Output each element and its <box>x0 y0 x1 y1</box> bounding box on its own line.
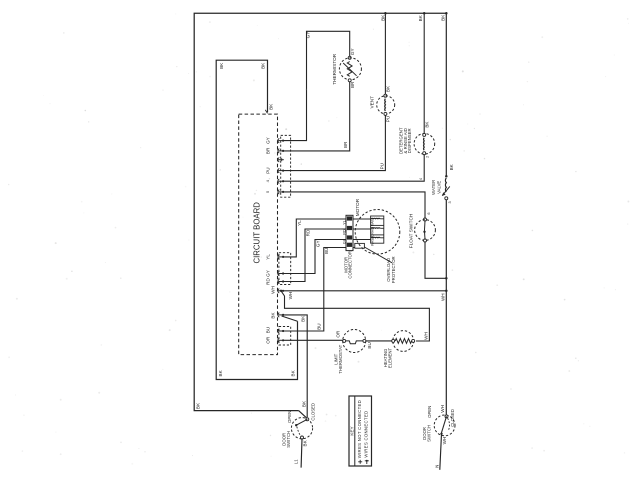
svg-text:BU: BU <box>324 248 329 254</box>
svg-text:6: 6 <box>427 212 431 214</box>
dispenser terminal top <box>423 133 426 136</box>
svg-text:BU: BU <box>367 342 372 348</box>
key legend divider <box>354 396 356 466</box>
vent L1 terminal top <box>384 94 387 97</box>
junction dot top rail corner to water valve <box>445 12 448 15</box>
svg-text:VENT: VENT <box>369 96 374 109</box>
key symbol wires connected (T with dot) <box>365 460 369 462</box>
svg-text:BK: BK <box>385 85 390 92</box>
wire thermostat to heating element <box>366 340 392 342</box>
svg-text:BK: BK <box>291 369 296 376</box>
svg-text:SWITCH: SWITCH <box>286 431 291 448</box>
wire L1 diagonal into left door switch <box>299 411 308 419</box>
limit thermostat terminal left <box>343 339 346 342</box>
svg-text:2: 2 <box>426 156 430 158</box>
pin BR (board pin 2) <box>278 149 279 153</box>
motor MAIN winding coil <box>353 218 371 220</box>
svg-text:BU: BU <box>265 327 270 333</box>
svg-text:BU: BU <box>317 323 322 329</box>
svg-text:GY: GY <box>306 32 311 39</box>
pin RD motor <box>278 279 279 283</box>
thermistor R1 terminal top <box>348 56 351 59</box>
wire water valve feed (BK) right rail upper part <box>445 13 447 176</box>
svg-text:WH: WH <box>442 437 447 445</box>
svg-text:MOTOR: MOTOR <box>355 198 360 216</box>
svg-text:BK: BK <box>418 14 423 21</box>
thermistor R1 terminal bottom <box>348 79 351 82</box>
svg-text:GY: GY <box>350 48 355 55</box>
svg-text:PU: PU <box>380 163 385 169</box>
pin 3 (unused) <box>278 158 279 162</box>
pin 5 dispenser <box>278 179 279 183</box>
svg-text:DRAIN: DRAIN <box>371 226 375 237</box>
pin GY (board pin 1) <box>278 138 279 142</box>
svg-text:4: 4 <box>419 178 423 180</box>
svg-text:CLOSED: CLOSED <box>450 409 455 427</box>
svg-text:3: 3 <box>448 201 452 203</box>
svg-text:BK: BK <box>302 400 307 407</box>
thermistor R1 diagonal stroke <box>343 63 356 76</box>
pin YL motor <box>278 255 279 259</box>
svg-text:BK: BK <box>303 439 308 446</box>
motor connector bar outline <box>346 215 353 250</box>
svg-text:RD: RD <box>306 229 311 236</box>
wire board pin6 to float switch top <box>284 192 425 218</box>
wire RD: board pin to motor connector <box>284 229 346 282</box>
pin GY motor <box>278 271 279 275</box>
svg-text:GY: GY <box>265 270 270 277</box>
svg-text:WASH: WASH <box>371 236 375 246</box>
svg-text:RD: RD <box>342 229 346 235</box>
wire WH: board pin to neutral rail <box>281 290 446 292</box>
motor winding box outline <box>371 216 384 243</box>
svg-text:DISPENSER: DISPENSER <box>407 128 412 153</box>
key symbol wires not connected (+) <box>358 461 362 463</box>
right door switch S5 dashed circle <box>434 415 455 436</box>
connector dashed box P1 (pins 1-6) <box>281 135 291 197</box>
pin PU (board pin 4) <box>278 168 279 172</box>
right door switch dashed closed position <box>448 418 450 430</box>
svg-text:GY: GY <box>316 240 321 247</box>
pin OR thermostat <box>278 338 279 342</box>
svg-text:FLOAT SWITCH: FLOAT SWITCH <box>408 214 413 248</box>
wire GY: board pin1 to thermistor top <box>284 31 350 140</box>
pin BU heater <box>278 329 279 333</box>
limit thermostat element <box>346 341 364 344</box>
svg-text:BK: BK <box>449 163 454 170</box>
water valve terminal bottom <box>445 197 448 200</box>
float switch dashed circle <box>415 220 436 241</box>
limit thermostat S3 dashed circle <box>343 330 366 353</box>
svg-text:WIRES CONNECTED: WIRES CONNECTED <box>364 411 369 458</box>
overload protector element <box>353 247 355 249</box>
heating element R2 dashed circle <box>393 331 414 352</box>
water valve arrow <box>442 186 450 195</box>
svg-text:CIRCUIT BOARD: CIRCUIT BOARD <box>253 202 262 264</box>
wire float switch bottom to neutral rail <box>425 242 446 278</box>
pin 6 float switch <box>278 190 279 194</box>
circuit board dashed outline <box>239 114 278 355</box>
left door switch terminal bottom <box>301 436 304 439</box>
left door switch open blade <box>296 419 307 425</box>
heating element zigzag <box>395 339 411 344</box>
junction dot top rail / dispenser line <box>423 12 426 15</box>
left door switch dashed closed position <box>297 427 302 437</box>
svg-text:BK: BK <box>425 121 430 128</box>
left door switch S4 dashed circle <box>291 418 312 439</box>
wire PU: vent bottom to board pin4 <box>284 115 386 170</box>
svg-text:WH: WH <box>424 332 429 340</box>
svg-text:OR: OR <box>265 336 270 344</box>
svg-text:YL: YL <box>342 220 346 224</box>
svg-text:BK: BK <box>219 62 224 69</box>
thermistor R1 dashed circle <box>339 58 361 80</box>
svg-text:GY: GY <box>265 137 270 144</box>
svg-text:YL: YL <box>297 220 302 226</box>
connector dashed box P3 (BU OR) <box>279 327 291 346</box>
wire dispenser feed (BK) from top rail down to dispenser <box>423 13 425 133</box>
motor M1 dashed circle <box>355 210 400 255</box>
svg-text:BK: BK <box>380 14 385 21</box>
svg-text:BK: BK <box>301 315 306 322</box>
wire YL: board pin to motor connector <box>284 219 346 257</box>
right door switch open blade <box>441 416 446 433</box>
wire BR: thermistor bottom to board pin2 <box>284 82 350 151</box>
svg-text:MAIN: MAIN <box>371 218 375 227</box>
thermistor R1 zigzag element <box>347 62 352 77</box>
svg-text:PU: PU <box>386 116 391 122</box>
svg-text:BR: BR <box>265 147 270 154</box>
wire BU: board pin to motor connector <box>284 248 346 332</box>
key legend box <box>349 396 372 466</box>
left door switch terminal top <box>306 418 309 421</box>
float switch blade <box>423 221 426 232</box>
svg-text:BR: BR <box>343 141 348 148</box>
svg-text:BR: BR <box>350 81 355 88</box>
svg-text:N: N <box>435 465 440 468</box>
vent terminal bottom <box>384 112 387 115</box>
heating element terminal right <box>412 339 415 342</box>
junction dot float wire / rail <box>445 277 448 280</box>
svg-text:WH: WH <box>440 405 445 413</box>
wire vent feed (BK) from top rail down to vent <box>384 13 386 94</box>
svg-text:BK: BK <box>218 369 223 376</box>
svg-text:OPEN: OPEN <box>427 406 432 418</box>
wire BK loop around circuit board <box>216 60 297 379</box>
svg-text:OPEN: OPEN <box>287 411 292 423</box>
water valve coil element <box>444 178 447 192</box>
connector dashed box P2 (YL GY RD) <box>279 253 291 285</box>
svg-text:WATER: WATER <box>431 180 436 195</box>
svg-text:YL: YL <box>265 254 270 260</box>
svg-text:BK: BK <box>268 103 273 110</box>
svg-text:OR: OR <box>336 330 341 338</box>
svg-text:PU: PU <box>265 167 270 173</box>
scan speckles <box>209 76 211 78</box>
dispenser coil element <box>423 138 426 150</box>
dispenser dashed circle <box>414 134 435 155</box>
junction dot top rail / vent line <box>384 12 387 15</box>
dispenser terminal bottom <box>423 152 426 155</box>
float switch lower lead <box>424 232 427 239</box>
svg-text:WIRES NOT CONNECTED: WIRES NOT CONNECTED <box>357 400 362 458</box>
right door switch blade end dot <box>440 433 442 435</box>
left door switch blade end dot <box>295 424 297 426</box>
right door switch terminal top <box>445 415 448 418</box>
svg-text:ELEMENT: ELEMENT <box>388 347 393 368</box>
pin WH neutral <box>278 289 279 293</box>
svg-text:THERMOSTAT: THERMOSTAT <box>338 344 343 373</box>
svg-text:CONNECTOR: CONNECTOR <box>348 251 353 279</box>
vent dashed circle <box>377 96 395 114</box>
float switch S2 terminal top <box>424 218 427 221</box>
wire WH branch down to heating element <box>281 291 429 341</box>
junction dot WH wire / rail <box>445 290 448 293</box>
motor connector pin contacts (black) <box>347 216 352 220</box>
svg-text:VALVE: VALVE <box>436 181 441 194</box>
svg-text:KEY: KEY <box>349 426 354 435</box>
svg-text:THERMISTOR: THERMISTOR <box>332 53 337 85</box>
vent coil element <box>384 99 387 111</box>
wire GY: board pin to motor connector <box>284 240 346 274</box>
wire N lead from right door switch <box>440 434 442 470</box>
wire L1 lead from left door switch <box>300 439 303 468</box>
svg-text:BK: BK <box>270 312 275 319</box>
wire dispenser bottom to board pin5 <box>284 155 424 182</box>
wire neutral rail: valve bottom down to right door switch <box>445 200 447 415</box>
float switch terminal bottom <box>424 239 427 242</box>
wire OR: board pin to limit thermostat <box>284 339 344 341</box>
wire BK diagonal from board pin <box>282 316 298 321</box>
pin BK supply <box>278 313 279 317</box>
float switch pivot dot <box>423 231 425 233</box>
svg-text:RD: RD <box>265 278 270 285</box>
svg-text:WH: WH <box>440 293 445 301</box>
BK loop arrow tick at dashed box top <box>265 110 267 114</box>
svg-text:BK: BK <box>260 62 265 69</box>
junction dot above water valve <box>445 175 448 178</box>
svg-text:L1: L1 <box>294 459 299 464</box>
svg-text:CLOSED: CLOSED <box>310 403 315 421</box>
svg-text:BK: BK <box>195 402 200 409</box>
limit thermostat terminal right <box>363 339 366 342</box>
svg-text:GY: GY <box>342 238 346 244</box>
heating element terminal left <box>392 339 395 342</box>
overload protector leader line <box>364 247 392 263</box>
wire L1 supply rail (BK): top + left outer border from left door switch <box>194 13 446 410</box>
svg-text:PROTECTOR: PROTECTOR <box>391 256 396 283</box>
junction dot WH at board pin <box>280 290 282 292</box>
svg-text:WH: WH <box>288 292 293 300</box>
svg-text:WH: WH <box>271 286 276 294</box>
motor DRAIN winding coil <box>353 228 371 230</box>
wire BK: board pin to left door switch <box>284 315 307 417</box>
svg-text:BK: BK <box>441 14 446 21</box>
motor WASH winding coil <box>353 239 371 241</box>
svg-text:SWITCH: SWITCH <box>426 425 431 442</box>
